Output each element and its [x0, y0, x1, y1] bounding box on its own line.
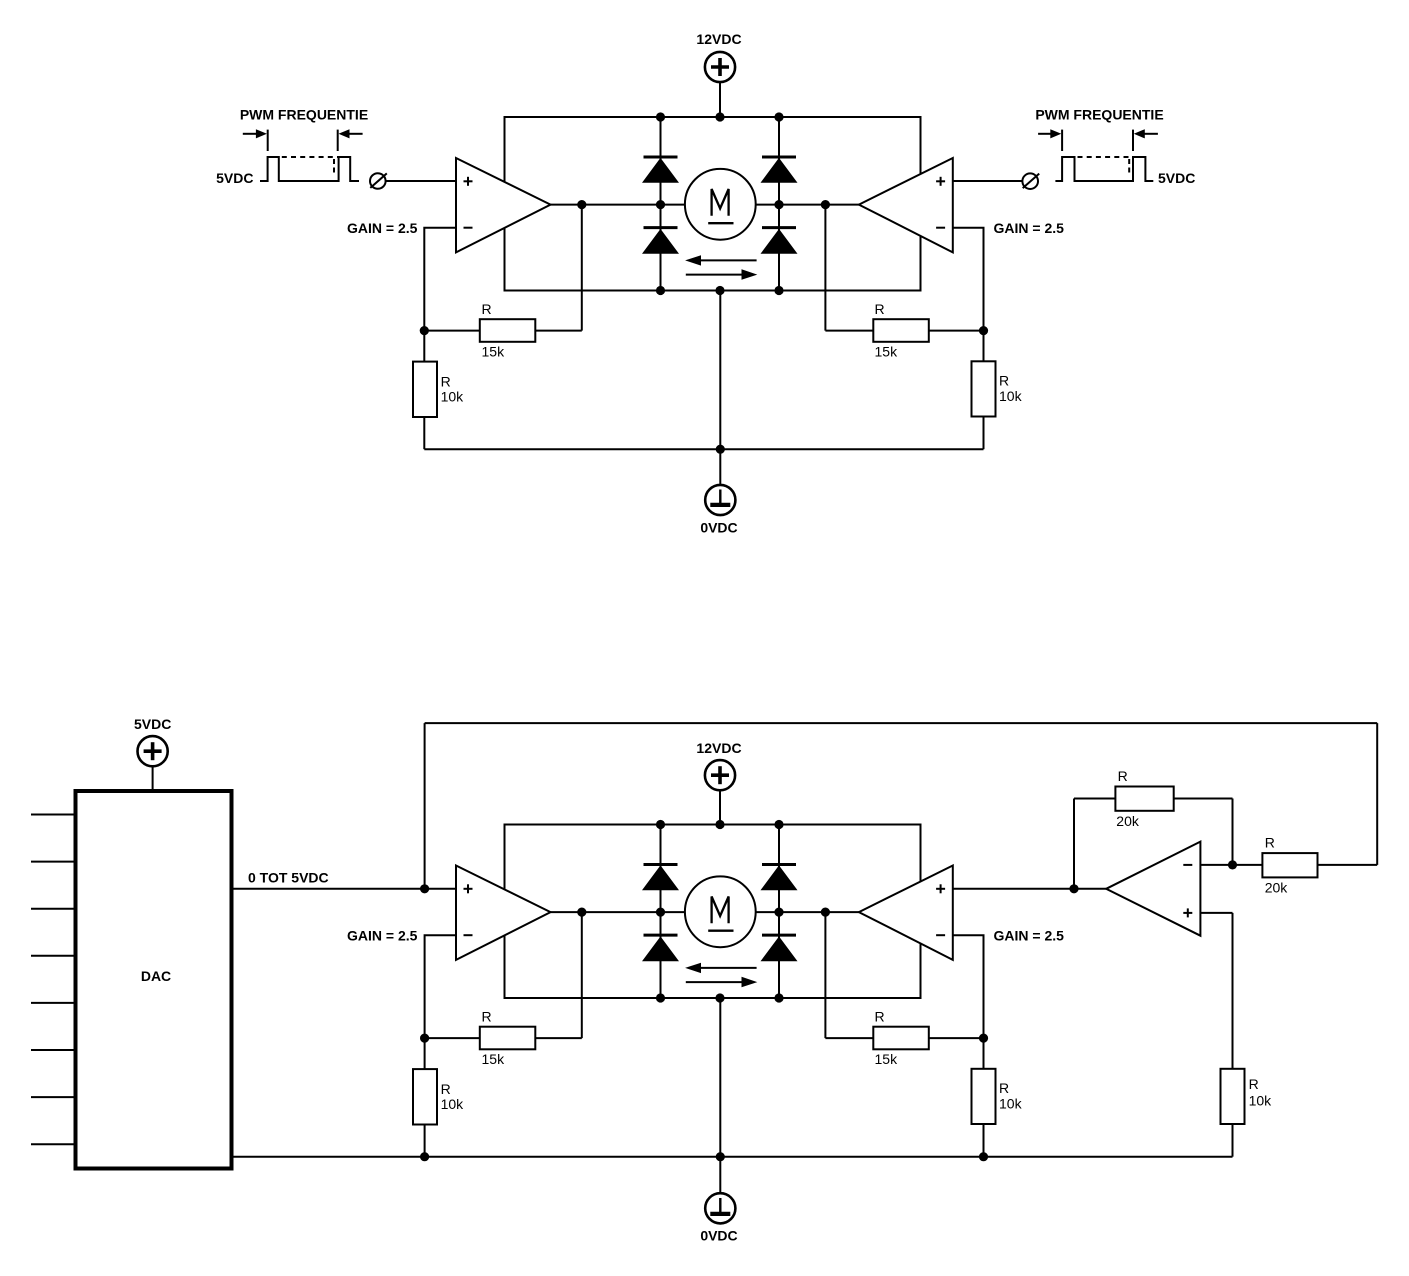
- junction top rail / left diode chain: [656, 112, 665, 121]
- junction U2 output / feedback drop: [821, 200, 830, 209]
- DAC input pin 2: [31, 861, 74, 863]
- op-amp U5 (inverter, bottom right): [1106, 842, 1200, 936]
- DAC input pin 7: [31, 1096, 74, 1098]
- power supply symbol 12VDC (bottom circuit): [705, 760, 735, 790]
- svg-text:0VDC: 0VDC: [700, 520, 737, 536]
- node dot U5 minus input: [1228, 860, 1237, 869]
- dimension arrow pointing right (left side): [243, 133, 257, 135]
- node dot ground rail (top circuit): [716, 445, 725, 454]
- U5 plus input marker: [1183, 912, 1192, 914]
- wire U1 minus input down to feedback node: [424, 228, 456, 331]
- node dot U4 feedback: [979, 1034, 988, 1043]
- direction arrow right (inside bridge): [686, 274, 742, 276]
- resistor R 10k (U5 ground leg): [1221, 1069, 1245, 1124]
- resistor R 10k (left, top circuit): [413, 362, 437, 417]
- wire node to R20k input: [1233, 864, 1263, 866]
- U3 plus input marker: [464, 888, 473, 890]
- DAC input pin 6: [31, 1049, 74, 1051]
- dashed edge line (right waveform): [1128, 159, 1130, 173]
- DAC input pin 3: [31, 908, 74, 910]
- resistor R 15k (right, bottom circuit): [873, 1027, 929, 1050]
- wire bridge bottom to ground rail (top circuit): [719, 291, 721, 485]
- svg-text:10k: 10k: [441, 1096, 465, 1112]
- bridge outline box (top circuit): [505, 117, 921, 291]
- svg-text:10k: 10k: [999, 388, 1023, 404]
- wire U5 plus input drop to R10k: [1232, 913, 1234, 1069]
- junction motor wire / left diode chain: [656, 200, 665, 209]
- wire R10k to ground rail (bottom left): [424, 1125, 426, 1157]
- svg-text:R: R: [441, 373, 451, 389]
- diode D5 (top left of bridge 2): [644, 863, 678, 866]
- op-amp U1 (left, top circuit): [456, 158, 551, 252]
- wire R15k right to feedback node (bottom): [929, 1037, 984, 1039]
- wire output drop to R15k right (bottom): [825, 1037, 873, 1039]
- junction bridge bottom / left diode chain: [656, 286, 665, 295]
- wire U5 feedback riser: [1232, 799, 1234, 865]
- dimension tick left: [267, 130, 269, 151]
- svg-text:15k: 15k: [482, 1051, 506, 1067]
- svg-text:DAC: DAC: [141, 968, 171, 984]
- diode D1 (top left of bridge): [644, 156, 678, 159]
- svg-text:12VDC: 12VDC: [696, 31, 741, 47]
- wire R10k to ground rail (U5): [1232, 1124, 1234, 1157]
- resistor R 15k (right, top circuit): [873, 319, 929, 342]
- wire feedback loop to R20k input: [1318, 864, 1378, 866]
- junction motor wire 2 / left diode chain: [656, 908, 665, 917]
- node dot U1 feedback: [420, 326, 429, 335]
- bridge outline box (bottom circuit): [505, 825, 921, 999]
- junction motor wire 2 / right diode chain: [774, 908, 783, 917]
- svg-text:20k: 20k: [1116, 813, 1140, 829]
- wire feedback node to R10k left: [423, 331, 425, 362]
- op-amp U2 (right, top circuit): [859, 158, 953, 252]
- DAC input pin 5: [31, 1002, 74, 1004]
- svg-text:R: R: [482, 301, 492, 317]
- svg-text:R: R: [1118, 768, 1128, 784]
- wire U4 plus input from inverter U5 output: [953, 888, 1106, 890]
- diode D8 (bottom right of bridge 2): [762, 934, 796, 937]
- wire feedback node to R10k (bottom left): [424, 1038, 426, 1069]
- wire U1 output feedback drop: [581, 205, 583, 331]
- wire feedback loop right drop: [1376, 723, 1378, 865]
- dashed level line (right waveform): [1078, 156, 1134, 158]
- node dot U2 feedback: [979, 326, 988, 335]
- svg-text:R: R: [999, 373, 1009, 389]
- wire U3 minus input down to feedback node: [425, 935, 456, 1038]
- U2 minus input marker: [936, 227, 945, 229]
- wire R10k left to ground rail: [423, 417, 425, 449]
- ground rail (top circuit): [424, 448, 983, 450]
- wire left diode chain (top circuit): [660, 117, 662, 291]
- resistor R 10k (right, top circuit): [972, 361, 996, 416]
- junction top rail 2 / right diode chain: [774, 820, 783, 829]
- wire U2 output feedback drop: [824, 205, 826, 331]
- wire left diode chain (bottom circuit): [660, 825, 662, 999]
- DAC block: [76, 791, 232, 1169]
- wire R15k to output drop (bottom left): [535, 1037, 582, 1039]
- svg-text:R: R: [875, 1008, 885, 1024]
- junction motor wire / right diode chain: [774, 200, 783, 209]
- motor M (top circuit): [685, 169, 756, 240]
- wire feedback loop riser (left): [424, 723, 426, 889]
- PWM waveform (right): [1055, 157, 1153, 181]
- svg-text:10k: 10k: [1249, 1092, 1273, 1108]
- junction ground rail 2 / 0VDC: [716, 1152, 725, 1161]
- svg-text:0VDC: 0VDC: [700, 1227, 737, 1243]
- junction bridge bottom / ground drop: [715, 286, 724, 295]
- svg-text:PWM FREQUENTIE: PWM FREQUENTIE: [240, 107, 368, 123]
- wire U5 minus input to node: [1200, 864, 1232, 866]
- direction arrow left (inside bridge): [698, 259, 757, 261]
- input terminal (left): [370, 173, 386, 189]
- wire output drop to resistor R15k right: [825, 330, 873, 332]
- dimension tick right: [337, 130, 339, 151]
- svg-text:5VDC: 5VDC: [216, 170, 253, 186]
- wire U2 plus input to terminal: [953, 180, 1022, 182]
- wire R15k right to feedback node: [929, 330, 984, 332]
- wire feedback node to resistor R15k left (bottom): [425, 1037, 480, 1039]
- wire op-amp U3 output to motor: [551, 911, 686, 913]
- svg-text:R: R: [441, 1081, 451, 1097]
- svg-text:15k: 15k: [875, 1051, 899, 1067]
- DAC input pin 1: [31, 814, 74, 816]
- wire feedback node to resistor R15k left: [424, 330, 480, 332]
- wire U5 output riser: [1073, 799, 1075, 889]
- resistor R 10k (left, bottom circuit): [413, 1069, 437, 1124]
- node dot U5 output: [1069, 884, 1078, 893]
- U2 plus input marker: [936, 180, 945, 182]
- PWM waveform (left): [260, 157, 359, 181]
- resistor R 20k (input, U5): [1262, 853, 1317, 877]
- diode D3 (top right of bridge): [762, 156, 796, 159]
- resistor R 20k (feedback, U5): [1115, 787, 1173, 811]
- svg-text:GAIN = 2.5: GAIN = 2.5: [994, 928, 1065, 944]
- wire 12VDC to top rail (bottom circuit): [719, 791, 721, 825]
- dimension arrow pointing left (right waveform): [1144, 133, 1158, 135]
- wire R10k right to ground rail (bottom): [983, 1124, 985, 1157]
- svg-text:GAIN = 2.5: GAIN = 2.5: [994, 220, 1065, 236]
- junction ground rail 2 / left 10k leg: [420, 1152, 429, 1161]
- svg-text:12VDC: 12VDC: [696, 740, 741, 756]
- wire R20k feedback to output drop: [1074, 798, 1115, 800]
- op-amp U3 (left, bottom circuit): [456, 866, 551, 960]
- DAC input pin 8: [31, 1143, 74, 1145]
- svg-text:15k: 15k: [482, 344, 506, 360]
- svg-text:15k: 15k: [875, 344, 899, 360]
- wire feedback node to R10k right (bottom): [983, 1038, 985, 1069]
- resistor R 15k (left, top circuit): [480, 319, 536, 342]
- svg-text:R: R: [875, 301, 885, 317]
- U5 minus input marker: [1183, 864, 1192, 866]
- wire U4 output feedback drop: [824, 912, 826, 1038]
- junction U3 output / feedback drop: [577, 908, 586, 917]
- wire motor to op-amp U2 output: [756, 204, 859, 206]
- node dot DAC output: [420, 884, 429, 893]
- ground symbol 0VDC (bottom circuit): [705, 1193, 735, 1223]
- wire bridge bottom to ground rail (bottom circuit): [719, 998, 721, 1193]
- svg-text:GAIN = 2.5: GAIN = 2.5: [347, 220, 418, 236]
- dimension tick right (right waveform): [1132, 130, 1134, 151]
- dimension tick left (right waveform): [1061, 130, 1063, 151]
- wire R10k right to ground rail: [983, 417, 985, 450]
- wire resistor R15k to output drop: [535, 330, 582, 332]
- wire DAC output to U3 plus input: [234, 888, 457, 890]
- wire U2 minus input down to feedback node: [953, 228, 984, 331]
- DAC input pin 4: [31, 955, 74, 957]
- junction bridge 2 bottom / ground drop: [715, 993, 724, 1002]
- wire right diode chain (bottom circuit): [778, 825, 780, 999]
- U4 minus input marker: [936, 934, 945, 936]
- wire feedback loop top run: [425, 722, 1378, 724]
- svg-text:R: R: [482, 1008, 492, 1024]
- U3 minus input marker: [464, 934, 473, 936]
- wire U5 plus input: [1200, 912, 1232, 914]
- node dot U3 feedback: [420, 1034, 429, 1043]
- svg-text:0 TOT 5VDC: 0 TOT 5VDC: [248, 870, 329, 886]
- wire op-amp U1 output to motor: [551, 204, 686, 206]
- junction bridge bottom / right diode chain: [774, 286, 783, 295]
- junction bridge 2 bottom / left diode chain: [656, 993, 665, 1002]
- wire terminal to U1 plus input: [386, 180, 456, 182]
- dimension arrow pointing left (right side): [349, 133, 363, 135]
- junction U4 output / feedback drop: [821, 908, 830, 917]
- junction top rail 2 / left diode chain: [656, 820, 665, 829]
- direction arrow right (bridge 2): [686, 981, 742, 983]
- dimension arrow pointing right (right waveform): [1038, 133, 1051, 135]
- ground symbol 0VDC (top circuit): [705, 485, 735, 515]
- wire feedback node to R20k feedback: [1174, 798, 1233, 800]
- wire 12VDC to top rail: [719, 83, 721, 117]
- junction ground rail 2 / right 10k leg: [979, 1152, 988, 1161]
- svg-text:R: R: [1249, 1076, 1259, 1092]
- resistor R 10k (right, bottom circuit): [972, 1069, 996, 1124]
- motor M (bottom circuit): [685, 876, 756, 947]
- wire feedback node to R10k right: [983, 331, 985, 362]
- wire motor to op-amp U4 output: [756, 911, 859, 913]
- diode D7 (top right of bridge 2): [762, 863, 796, 866]
- diode D2 (bottom left of bridge): [644, 226, 678, 229]
- wire U3 output feedback drop: [581, 912, 583, 1038]
- junction top rail / right diode chain: [774, 112, 783, 121]
- dashed level line (left waveform): [282, 156, 339, 158]
- svg-text:PWM FREQUENTIE: PWM FREQUENTIE: [1035, 107, 1163, 123]
- input terminal (right): [1022, 173, 1038, 189]
- U4 plus input marker: [936, 888, 945, 890]
- op-amp U4 (right, bottom circuit): [859, 866, 953, 960]
- svg-text:20k: 20k: [1265, 879, 1289, 895]
- ground rail (bottom circuit): [234, 1156, 1233, 1158]
- svg-text:5VDC: 5VDC: [134, 716, 171, 732]
- wire U4 minus input down to feedback node: [953, 935, 984, 1038]
- direction arrow left (bridge 2): [698, 967, 757, 969]
- junction U1 output / feedback drop: [577, 200, 586, 209]
- svg-text:10k: 10k: [441, 389, 465, 405]
- svg-text:R: R: [999, 1080, 1009, 1096]
- junction bridge 2 bottom / right diode chain: [774, 993, 783, 1002]
- junction top rail 2 / 12VDC feed: [715, 820, 724, 829]
- svg-text:R: R: [1265, 834, 1275, 850]
- U1 minus input marker: [464, 227, 473, 229]
- power supply symbol 12VDC (top circuit): [705, 52, 735, 82]
- junction top rail / 12VDC feed: [715, 112, 724, 121]
- resistor R 15k (left, bottom circuit): [480, 1027, 536, 1050]
- dashed edge line (left waveform): [333, 159, 335, 173]
- power supply symbol 5VDC (DAC): [138, 736, 168, 766]
- U1 plus input marker: [464, 180, 473, 182]
- svg-text:10k: 10k: [999, 1095, 1023, 1111]
- wire right diode chain (top circuit): [778, 117, 780, 291]
- svg-text:GAIN = 2.5: GAIN = 2.5: [347, 928, 418, 944]
- svg-text:5VDC: 5VDC: [1158, 170, 1195, 186]
- wire 5VDC to DAC: [152, 767, 154, 790]
- diode D4 (bottom right of bridge): [762, 226, 796, 229]
- diode D6 (bottom left of bridge 2): [644, 934, 678, 937]
